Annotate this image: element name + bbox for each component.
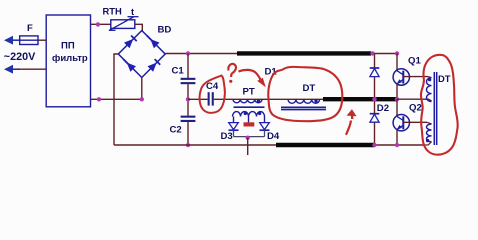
- node Q rail top corner: [395, 51, 399, 55]
- annotation red circle around C4: [200, 76, 225, 113]
- svg-text:~220V: ~220V: [4, 51, 36, 63]
- node top rail D-branch: [370, 51, 374, 55]
- svg-text:PT: PT: [243, 87, 255, 98]
- transformer DT right bottom winding: [423, 122, 432, 145]
- svg-text:D4: D4: [267, 131, 280, 142]
- transformer PT primary winding: [233, 99, 262, 103]
- svg-text:DT: DT: [438, 73, 451, 84]
- svg-text:ПП: ПП: [61, 41, 75, 52]
- node D middle: [372, 97, 376, 101]
- bridge diode top-right: [147, 36, 160, 49]
- svg-text:Q1: Q1: [408, 56, 421, 67]
- diode D3: [229, 123, 239, 137]
- svg-text:D2: D2: [377, 103, 389, 114]
- diode D2: [370, 114, 380, 123]
- svg-text:Q2: Q2: [409, 103, 422, 114]
- node D bottom: [372, 143, 376, 147]
- node C1 top: [186, 51, 190, 55]
- inductor DT core lines: [281, 107, 326, 109]
- annotation red blob around DT middle: [268, 67, 342, 121]
- annotation red bar on PT center tap: [244, 122, 255, 126]
- wire middle rail to DT right: [397, 99, 432, 101]
- wire AC line 1 (to fuse): [6, 39, 46, 41]
- annotation red ellipse around DT right: [421, 55, 458, 155]
- node filter top output: [96, 22, 100, 26]
- wire filter top output to RTH: [91, 23, 111, 25]
- transistor Q2: [393, 99, 427, 145]
- bridge diode bottom-left: [123, 59, 136, 72]
- svg-text:фильтр: фильтр: [52, 53, 88, 64]
- svg-text:C1: C1: [172, 66, 185, 77]
- wire AC line 2: [6, 68, 46, 70]
- node bridge bottom corner branch: [140, 97, 144, 101]
- filter block PP (ПП фильтр): [46, 15, 90, 107]
- transformer PT secondary winding: [233, 112, 265, 123]
- wire RTH to bridge top: [135, 24, 143, 30]
- wire top rail thin: [165, 53, 238, 55]
- inductor DT middle winding: [288, 99, 320, 103]
- capacitor C2: [181, 116, 196, 145]
- wire center tap stub down: [247, 138, 249, 155]
- bridge diode top-left: [124, 36, 137, 49]
- diode D1: [370, 68, 380, 77]
- capacitor C1: [181, 54, 196, 116]
- transformer DT right core: [434, 72, 436, 145]
- wire top rail right thin: [371, 53, 398, 55]
- annotation red question mark: [228, 64, 236, 83]
- annotation red arrow up: [346, 109, 357, 135]
- svg-text:C4: C4: [206, 81, 219, 92]
- bridge diode bottom-right: [148, 59, 161, 72]
- transformer PT core: [234, 106, 265, 108]
- wire bottom rail thick black bus: [276, 143, 375, 147]
- node middle rail left: [186, 97, 190, 101]
- bridge rectifier BD frame: [118, 31, 165, 78]
- svg-text:C2: C2: [170, 124, 182, 135]
- thermistor RTH: [109, 17, 139, 31]
- wire D1-D2 branch vertical: [374, 53, 376, 145]
- wire bridge left corner to bottom rail: [114, 54, 118, 145]
- svg-text:D3: D3: [221, 131, 233, 142]
- fuse F: [20, 36, 38, 45]
- wire top rail thick black bus: [237, 51, 371, 55]
- arrow AC input 2: [4, 65, 13, 74]
- annotation red arrow to PT: [239, 70, 266, 87]
- arrow AC input 1: [4, 36, 13, 45]
- wire middle rail to DT: [214, 98, 324, 100]
- label ПП фильтр: [52, 41, 88, 65]
- node center tap output: [246, 136, 250, 140]
- svg-text:F: F: [27, 23, 33, 34]
- node filter bottom output: [97, 97, 101, 101]
- wire filter bottom output to bridge bottom: [91, 78, 142, 100]
- diode D4: [260, 123, 270, 137]
- wire middle rail left segment: [188, 98, 208, 100]
- wire bottom rail left thin: [114, 144, 277, 146]
- node Q middle: [395, 97, 399, 101]
- capacitor C4: [208, 92, 214, 105]
- svg-text:t: t: [131, 6, 134, 17]
- transformer DT right top winding: [427, 77, 432, 102]
- svg-text:RTH: RTH: [103, 6, 122, 17]
- transistor Q1: [393, 54, 428, 100]
- svg-text:BD: BD: [158, 25, 172, 36]
- wire bottom rail right thin: [375, 144, 424, 146]
- node C2 bottom: [186, 143, 190, 147]
- node Q bottom: [395, 143, 399, 147]
- wire D3-D4 cathode bracket: [234, 136, 265, 138]
- svg-text:DT: DT: [303, 83, 316, 94]
- wire middle rail thick black bus: [323, 97, 397, 101]
